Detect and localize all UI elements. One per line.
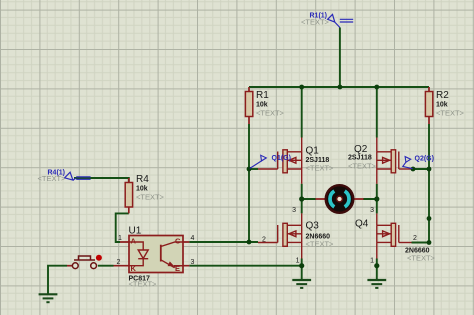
junction top rail right — [374, 85, 379, 90]
svg-text:R1: R1 — [256, 90, 269, 101]
svg-text:<TEXT>: <TEXT> — [407, 254, 436, 263]
junction Q2 gate rail — [427, 167, 432, 172]
push button — [67, 255, 102, 269]
svg-text:Q4: Q4 — [355, 219, 369, 230]
wire Q1 source to motor node — [302, 184, 316, 199]
svg-text:2: 2 — [413, 235, 417, 242]
svg-text:Q2: Q2 — [354, 144, 368, 155]
svg-text:<TEXT>: <TEXT> — [136, 193, 165, 202]
svg-text:<TEXT>: <TEXT> — [306, 240, 335, 249]
wire Q4 source to ground — [376, 259, 378, 280]
wire U1 pin3 to Q3 source — [189, 265, 301, 267]
wire Q4 drain to motor node — [376, 199, 378, 213]
wire Q1 drain up — [301, 87, 303, 138]
wire Q2 gate to rail — [412, 168, 430, 170]
wire button to ground — [48, 266, 67, 294]
svg-text:<TEXT>: <TEXT> — [306, 164, 335, 173]
svg-text:<TEXT>: <TEXT> — [301, 17, 330, 26]
svg-text:3: 3 — [191, 259, 195, 266]
svg-text:4: 4 — [191, 235, 195, 242]
svg-text:U1: U1 — [129, 226, 142, 237]
resistor R2 — [425, 87, 464, 124]
svg-text:R4: R4 — [136, 174, 149, 185]
junction motor left — [299, 196, 304, 201]
junction top rail left — [299, 85, 304, 90]
motor — [326, 185, 354, 213]
junction Q3 gate bus — [247, 240, 252, 245]
svg-text:3: 3 — [292, 207, 296, 214]
junction Q1 gate — [247, 167, 252, 172]
transistor Q4 (2N6660) — [377, 213, 412, 258]
svg-text:A: A — [131, 237, 137, 246]
wire Q4 gate to rail — [412, 242, 430, 244]
wire R4 bottom to U1 pin1 — [116, 213, 129, 242]
svg-text:<TEXT>: <TEXT> — [38, 174, 67, 183]
svg-text:10k: 10k — [436, 102, 448, 109]
svg-text:Q3: Q3 — [306, 221, 320, 232]
wire Q1 gate branch — [249, 168, 258, 170]
wire Q3 drain to motor node — [301, 199, 303, 213]
transistor Q3 (2N6660) — [258, 213, 302, 258]
svg-text:1: 1 — [370, 258, 374, 265]
junction top rail center — [338, 85, 343, 90]
ground under Q3 — [292, 280, 311, 288]
wire power terminal drop — [339, 28, 341, 88]
svg-text:1: 1 — [296, 258, 300, 265]
wire Q3 source to ground — [301, 259, 303, 280]
ground under Q4 — [367, 280, 386, 288]
svg-text:Q1: Q1 — [306, 146, 320, 157]
svg-text:K: K — [131, 264, 137, 273]
wire button to U1 pin2 — [98, 265, 114, 267]
junction Q2 gate terminal — [411, 167, 416, 172]
wire label Q2(G) — [403, 155, 434, 168]
wire right rail R2 to gates — [428, 124, 430, 243]
wire Q2 source to motor node — [363, 184, 377, 199]
transistor Q2 (2SJ118) — [377, 138, 412, 184]
input terminal R4(1) — [65, 172, 91, 180]
svg-text:10k: 10k — [256, 102, 268, 109]
junction Q4 gate rail — [427, 240, 432, 245]
wire R1 bottom to gate bus — [248, 124, 250, 242]
wire top rail — [249, 86, 429, 88]
junction motor right — [374, 196, 379, 201]
svg-text:2: 2 — [117, 259, 121, 266]
junction rail mid — [427, 216, 432, 221]
transistor Q1 (2SJ118) — [258, 138, 302, 184]
wire label Q1(G) — [250, 155, 291, 169]
motor pins — [316, 198, 364, 200]
svg-text:<TEXT>: <TEXT> — [129, 279, 158, 288]
svg-text:10k: 10k — [136, 186, 148, 193]
junction Q4 source — [374, 263, 379, 268]
power terminal R1(1) — [328, 14, 354, 27]
svg-text:2: 2 — [262, 237, 266, 244]
ground left — [39, 294, 58, 302]
svg-text:2SJ118: 2SJ118 — [348, 155, 372, 162]
svg-text:Q1(G): Q1(G) — [272, 155, 291, 162]
wire Q2 drain up — [376, 87, 378, 138]
svg-text:E: E — [175, 264, 180, 273]
optocoupler U1 PC817 — [114, 236, 190, 274]
svg-text:Q2(G): Q2(G) — [415, 155, 434, 162]
svg-text:1: 1 — [118, 235, 122, 242]
svg-text:<TEXT>: <TEXT> — [436, 109, 465, 118]
wire R4 input terminal to R4 — [74, 178, 129, 182]
svg-text:<TEXT>: <TEXT> — [348, 162, 377, 171]
resistor R4 — [125, 174, 164, 213]
svg-text:<TEXT>: <TEXT> — [256, 109, 285, 118]
svg-text:3: 3 — [370, 207, 374, 214]
svg-text:R2: R2 — [436, 90, 449, 101]
resistor R1 — [245, 87, 284, 124]
junction Q3 source — [299, 263, 304, 268]
svg-text:C: C — [175, 237, 181, 246]
wire U1 pin4 to Q3 gate — [189, 241, 258, 243]
